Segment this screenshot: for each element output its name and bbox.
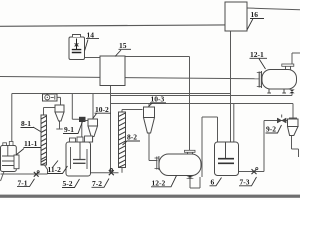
svg-text:10-3: 10-3 xyxy=(151,95,165,104)
wire header y93 xyxy=(12,93,231,95)
wire top header xyxy=(0,25,225,26)
label 9-1 xyxy=(63,122,83,135)
tank 5-2 xyxy=(66,136,93,176)
label 7-2 xyxy=(92,179,110,189)
column 8-2 xyxy=(119,112,126,168)
wire box15 bottom drop xyxy=(110,86,112,171)
wire branch down to cyclone 10-2 xyxy=(92,94,94,120)
svg-text:7-2: 7-2 xyxy=(92,179,102,188)
wire cyclone 9-1 dipleg xyxy=(56,121,62,129)
valve 7-3 xyxy=(252,168,258,175)
wire box14 to box15 xyxy=(85,57,101,59)
column 8-1 xyxy=(41,115,47,165)
valve 9-2 inlet xyxy=(277,115,286,124)
bottom scan band xyxy=(0,195,300,198)
svg-text:8-1: 8-1 xyxy=(21,119,31,128)
svg-text:9-1: 9-1 xyxy=(64,125,74,134)
wire column 8-1 bottom xyxy=(45,165,48,174)
svg-text:8-2: 8-2 xyxy=(127,133,137,142)
label 16 xyxy=(247,10,264,30)
cyclone 10-2 xyxy=(84,119,98,137)
svg-text:9-2: 9-2 xyxy=(266,125,276,134)
wire cyclone 10-2 dipleg xyxy=(92,137,94,143)
label 11-2 xyxy=(47,161,68,175)
wire long line A to 12-1 flange xyxy=(0,77,259,79)
blower 13 xyxy=(43,94,58,101)
pump on agitator line xyxy=(79,117,86,122)
tank 5-1 xyxy=(1,142,20,172)
wire tank 5-2 outlet to valve 7-2 xyxy=(91,172,119,174)
wire column 8-2 bottom xyxy=(121,168,123,173)
wire pump to tank 5-2 stirrer xyxy=(81,122,83,138)
wire 7-3 valve line xyxy=(239,121,288,172)
label 5-2 xyxy=(62,179,80,188)
wire header branch to agitator 5-2 xyxy=(72,94,79,120)
svg-text:7-3: 7-3 xyxy=(240,178,250,187)
wire riser box16 to reactor 6 xyxy=(230,31,232,143)
box 16 xyxy=(225,2,247,31)
wire 12-2 seal loop xyxy=(190,177,200,188)
svg-text:15: 15 xyxy=(119,41,127,50)
wire feed down to tank 5-1 second xyxy=(11,94,13,143)
wire riser reactor 6 second xyxy=(233,104,235,144)
valve 7-1 xyxy=(34,171,40,177)
label 8-2 xyxy=(123,133,141,146)
label 10-3 xyxy=(149,95,167,107)
wire 12-1 bottom valve drop xyxy=(291,93,293,96)
wire header y103 xyxy=(111,103,294,105)
svg-text:11-2: 11-2 xyxy=(48,165,62,174)
label 11-1 xyxy=(16,139,41,155)
wire tank 5-1 drain xyxy=(1,172,5,182)
wire transfer 12-2 to reactor 6 xyxy=(202,117,218,177)
label 6 xyxy=(210,178,222,187)
label 7-3 xyxy=(239,177,257,187)
wire cyclone 9-2 overhead xyxy=(292,104,294,120)
svg-text:10-2: 10-2 xyxy=(95,105,109,114)
wire column 8-2 overhead to cyclone 10-3 xyxy=(122,110,143,113)
label 12-1 xyxy=(250,50,268,69)
label 8-1 xyxy=(21,119,41,132)
svg-text:12-1: 12-1 xyxy=(250,50,264,59)
wire blower to cyclone 9-1 top xyxy=(57,97,61,105)
svg-text:5-2: 5-2 xyxy=(63,179,73,188)
svg-text:11-1: 11-1 xyxy=(24,139,38,148)
wire header y96 xyxy=(111,95,293,97)
svg-text:7-1: 7-1 xyxy=(18,178,28,187)
valve 7-2 xyxy=(109,169,114,176)
cyclone 9-1 xyxy=(55,105,64,121)
drum 12-2 xyxy=(155,150,202,178)
label 15 xyxy=(115,41,131,57)
box 15 xyxy=(100,56,125,86)
wire cyclone 10-3 dipleg to 12-2 xyxy=(149,133,158,161)
cyclone 10-3 xyxy=(144,107,155,133)
tank 14 xyxy=(69,35,85,60)
reactor 6 xyxy=(215,142,239,176)
drum 12-1 xyxy=(257,64,297,93)
label 12-2 xyxy=(151,176,177,188)
label 14 xyxy=(85,31,99,51)
label 10-2 xyxy=(93,105,111,119)
label 7-1 xyxy=(17,178,35,187)
svg-text:12-2: 12-2 xyxy=(152,179,166,188)
label 9-2 xyxy=(266,125,282,134)
wire cyclone 10-3 top stub xyxy=(148,104,150,108)
svg-text:16: 16 xyxy=(251,10,259,19)
wire 12-1 top feed xyxy=(292,53,300,64)
wire cyclone 9-2 dipleg xyxy=(292,136,299,158)
wire tank 5-1 outlet to valve 7-1 xyxy=(1,173,48,175)
cyclone 9-2 xyxy=(288,118,299,136)
wire box15 right to 12-2 nozzle xyxy=(125,57,190,151)
svg-text:6: 6 xyxy=(211,178,215,187)
wire box16 outlet right xyxy=(247,8,300,10)
wire column 8-1 overhead to cyclone 9-1 xyxy=(44,108,56,116)
